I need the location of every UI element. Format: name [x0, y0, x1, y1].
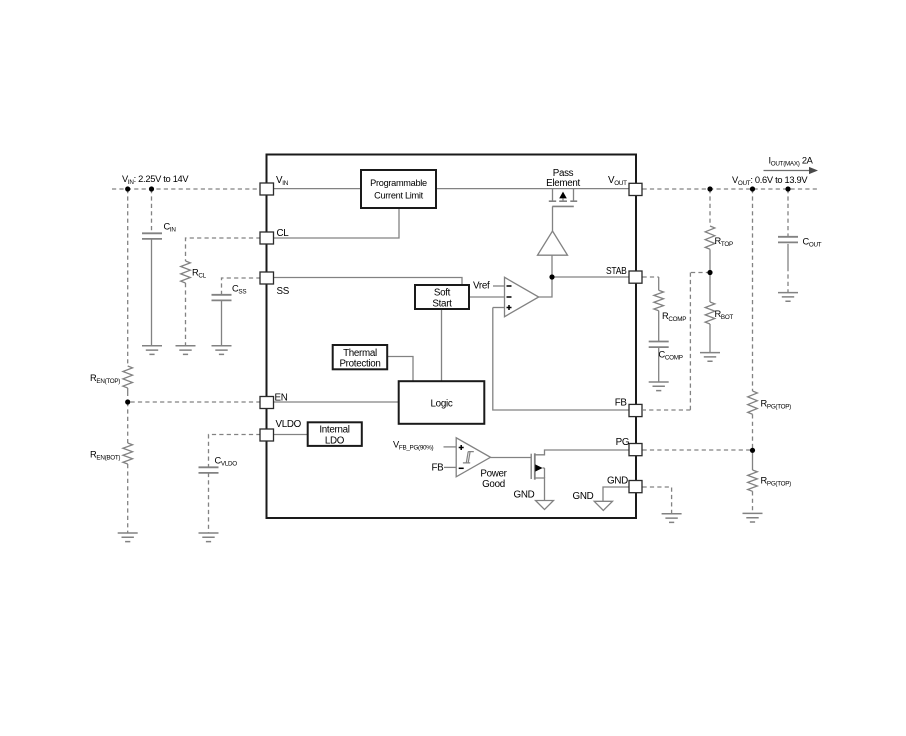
svg-text:FB: FB [615, 398, 628, 409]
svg-text:CL: CL [277, 228, 290, 239]
svg-text:FB: FB [432, 463, 445, 474]
svg-text:LDO: LDO [325, 436, 345, 447]
svg-text:Good: Good [482, 479, 505, 490]
svg-text:STAB: STAB [606, 266, 627, 277]
svg-text:Logic: Logic [431, 399, 453, 410]
svg-text:PG: PG [616, 437, 630, 448]
svg-text:Protection: Protection [339, 358, 380, 369]
svg-text:GND: GND [607, 476, 628, 487]
svg-text:GND: GND [573, 491, 594, 502]
svg-text:Internal: Internal [319, 425, 349, 436]
svg-text:Thermal: Thermal [343, 348, 377, 359]
svg-text:VLDO: VLDO [276, 419, 302, 430]
svg-text:Programmable: Programmable [370, 178, 427, 188]
svg-text:Start: Start [432, 298, 452, 309]
svg-text:Element: Element [546, 178, 580, 189]
svg-text:Soft: Soft [434, 288, 451, 299]
svg-text:EN: EN [275, 393, 288, 404]
svg-text:Vref: Vref [473, 281, 490, 292]
svg-text:Power: Power [480, 469, 507, 480]
svg-text:GND: GND [514, 490, 535, 501]
svg-text:SS: SS [277, 286, 290, 297]
svg-text:Current Limit: Current Limit [374, 190, 423, 200]
